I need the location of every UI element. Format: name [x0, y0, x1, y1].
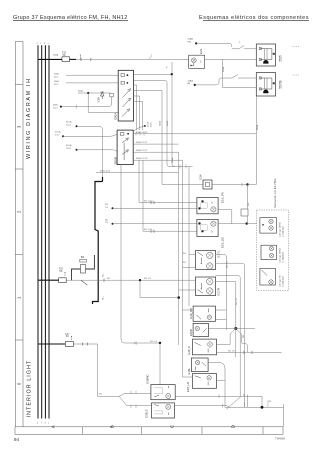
svg-text:5A: 5A: [66, 335, 69, 338]
E18MC/E18LC right wires: [175, 395, 241, 397]
svg-text:Cab type H1: Cab type H1: [279, 275, 282, 287]
fuse F22: [59, 278, 66, 283]
ground bus bar 4: [48, 45, 50, 418]
svg-text:31AA: 31AA: [188, 79, 194, 82]
wire lamp return vertical: [255, 96, 257, 185]
switch contact: [81, 280, 88, 284]
wire 31AC D2.4: [96, 172, 179, 174]
svg-text:D2.3: D2.3: [53, 108, 58, 110]
svg-text:Cab type N2/N3: Cab type N2/N3: [279, 221, 282, 237]
node junction at x172: [171, 73, 173, 75]
svg-text:b: b: [212, 202, 214, 205]
svg-text:31AA: 31AA: [53, 54, 59, 57]
wire tap2 continues to E17R: [98, 279, 196, 281]
big junction dot: [234, 327, 237, 330]
lamp unit E18_RB: [193, 306, 215, 321]
svg-text:31L C4: 31L C4: [150, 341, 157, 343]
svg-text:31AD C2.10: 31AD C2.10: [136, 131, 148, 134]
svg-text:E17L: E17L: [217, 250, 221, 257]
svg-text:31AC D2.4: 31AC D2.4: [100, 170, 111, 173]
node 31AC junction: [87, 92, 89, 94]
svg-text:E34: E34: [199, 174, 203, 179]
node 31L C4: [112, 207, 114, 209]
connector X on variants wire: [241, 209, 248, 216]
variant lamp 2: [261, 245, 277, 259]
node E18MC feed: [159, 342, 161, 344]
lamp unit E16_P5: [197, 198, 218, 214]
svg-text:INTERIOR LIGHT: INTERIOR LIGHT: [27, 360, 33, 418]
svg-text:31AD C2.12: 31AD C2.12: [136, 149, 148, 152]
svg-text:31CA: 31CA: [66, 144, 72, 147]
switch unit E18MC: [151, 385, 175, 400]
wire 31AC D2.1: [66, 74, 118, 76]
lamp unit E18B: [193, 323, 208, 336]
svg-text:31+: 31+: [103, 273, 105, 277]
svg-text:TW4868: TW4868: [275, 437, 285, 441]
svg-text:31L C2.4: 31L C2.4: [144, 201, 153, 203]
svg-text:3: 3: [44, 43, 46, 45]
lamp unit E17L: [196, 251, 216, 270]
wire to S50A pin: [87, 93, 89, 112]
svg-text:2: 2: [17, 210, 22, 213]
lamp unit 55/5: [256, 44, 275, 66]
node 31CA D1.6: [76, 125, 78, 127]
svg-text:31AC: 31AC: [54, 80, 60, 83]
svg-text:D2.2: D2.2: [54, 84, 59, 86]
svg-text:31AA: 31AA: [171, 157, 174, 163]
svg-text:5A: 5A: [63, 54, 66, 57]
node 31AA A4: [194, 84, 196, 86]
svg-text:31AD C2.11: 31AD C2.11: [136, 141, 148, 144]
misc tiny wire labels: [37, 43, 247, 396]
svg-text:55/5: 55/5: [279, 55, 283, 61]
svg-text:31L: 31L: [248, 202, 250, 206]
svg-text:Cab type N2/N3: Cab type N2/N3: [279, 247, 282, 263]
node 31CA D1.7: [62, 135, 64, 137]
svg-text:31L: 31L: [99, 394, 103, 396]
svg-text:31L C6: 31L C6: [228, 350, 235, 352]
ground bus bar 1: [37, 45, 39, 418]
svg-text:1: 1: [17, 296, 22, 299]
svg-text:K9: K9: [81, 255, 85, 259]
lamp unit 55/7B: [256, 73, 275, 97]
svg-text:b: b: [212, 231, 214, 234]
thick ground line: [93, 177, 103, 304]
wires right side routing: [216, 255, 248, 408]
svg-text:D2.1: D2.1: [54, 76, 59, 78]
svg-text:31L: 31L: [183, 253, 187, 255]
wires long verticals mid: [179, 152, 190, 377]
pin tick 1: [149, 57, 151, 60]
svg-text:E16_P5: E16_P5: [221, 192, 225, 203]
svg-text:E17R: E17R: [217, 287, 221, 295]
svg-text:C5: C5: [105, 222, 109, 224]
svg-text:E16_D5: E16_D5: [221, 237, 225, 248]
svg-text:D1.6: D1.6: [66, 124, 71, 126]
wire tap1 thick: [38, 58, 62, 60]
svg-text:Variants on E17R/L: Variants on E17R/L: [273, 178, 277, 208]
svg-text:WIRING DIAGRAM IH: WIRING DIAGRAM IH: [26, 77, 32, 159]
node 31CA D1.8: [76, 149, 78, 151]
wires S50B outputs: [133, 91, 256, 232]
svg-text:K: K: [166, 67, 168, 69]
svg-text:31AD: 31AD: [158, 120, 161, 126]
svg-text:D: D: [231, 424, 236, 428]
svg-text:31L: 31L: [105, 219, 109, 221]
svg-text:E18MC: E18MC: [145, 374, 149, 383]
svg-text:L: L: [48, 423, 50, 425]
variant lamp 1: [260, 218, 277, 233]
svg-text:A: A: [51, 424, 56, 428]
switch module S50B: [117, 130, 133, 165]
node junction E17R return: [177, 296, 180, 299]
node 31CA mid labels: [144, 125, 146, 127]
svg-text:3: 3: [17, 125, 22, 128]
ground bus bar 2: [41, 45, 43, 418]
svg-text:31AC: 31AC: [78, 90, 84, 93]
vertical drop from E23 wire: [223, 59, 257, 87]
svg-text:4: 4: [37, 423, 39, 425]
node 31AA F31: [195, 42, 197, 44]
wire tap2 thick: [38, 279, 59, 281]
svg-text:31+: 31+: [103, 296, 105, 300]
svg-text:E23: E23: [199, 48, 203, 54]
svg-text:31L C6: 31L C6: [236, 298, 238, 305]
svg-text:A4: A4: [188, 82, 191, 85]
svg-text:31L: 31L: [107, 278, 111, 280]
svg-text:D1.7: D1.7: [55, 134, 60, 136]
connector on wire: [110, 93, 114, 97]
wire A to lamp 55/5: [196, 43, 232, 47]
svg-text:55/7B: 55/7B: [279, 80, 283, 88]
svg-text:7: 7: [40, 43, 42, 45]
split to E18MC / E18LC: [119, 394, 151, 397]
switch unit E18LC: [152, 403, 175, 418]
wire 31AC D2.3: [61, 104, 112, 107]
svg-text:w. Highlight: w. Highlight: [282, 226, 285, 237]
svg-text:E18B: E18B: [189, 329, 193, 336]
fuse F47: [65, 342, 73, 347]
svg-text:31CA: 31CA: [66, 121, 72, 124]
svg-text:S50B: S50B: [114, 157, 118, 164]
svg-text:w. Highlight: w. Highlight: [282, 276, 285, 287]
ground bus bar 3: [44, 45, 46, 418]
lamp unit E18_LB: [192, 374, 216, 389]
svg-text:3: 3: [44, 423, 46, 425]
svg-text:31AC: 31AC: [53, 104, 59, 107]
diode V28: [101, 92, 105, 99]
svg-text:31: 31: [269, 401, 272, 403]
node on tap2 wire: [139, 279, 141, 281]
switch module S50A: [118, 70, 133, 121]
lamp E23: [189, 55, 205, 68]
node E34 return: [246, 183, 248, 185]
svg-text:D1.6: D1.6: [150, 122, 152, 127]
svg-text:E18LC: E18LC: [144, 409, 148, 418]
wire 31AC D2.2: [66, 82, 118, 84]
svg-text:C: C: [170, 424, 175, 428]
svg-text:1: 1: [151, 55, 153, 58]
bottom letter strip: [15, 427, 283, 435]
svg-text:E18_C: E18_C: [187, 346, 191, 355]
bottom right wires: [208, 334, 283, 427]
variant lamp 3: [260, 268, 276, 285]
svg-text:31L C2: 31L C2: [144, 278, 152, 280]
wires S50A right routing: [134, 75, 176, 167]
svg-text:31AC: 31AC: [54, 72, 60, 75]
relay K9: [72, 269, 81, 280]
svg-text:no Highlight: no Highlight: [282, 252, 285, 263]
left scale column: [15, 42, 23, 428]
svg-text:1: 1: [48, 43, 50, 45]
svg-text:31AA: 31AA: [222, 66, 225, 72]
svg-text:V28: V28: [97, 97, 101, 103]
verticals right: [231, 210, 233, 224]
svg-text:31L: 31L: [105, 204, 109, 206]
variants dashed box: [257, 210, 289, 291]
fuse F32: [62, 57, 70, 62]
wire: [70, 58, 77, 60]
wire S50B bottom to E18MC: [121, 165, 160, 343]
svg-text:D1.8: D1.8: [66, 148, 71, 150]
svg-text:31AA: 31AA: [188, 38, 194, 41]
long vertical from E23 line: [172, 62, 193, 167]
node variants feed: [246, 222, 248, 224]
svg-text:5: 5: [239, 42, 241, 44]
svg-text:7: 7: [41, 423, 43, 425]
svg-text:E18L: E18L: [187, 368, 191, 375]
wire tap3 down to lamps: [98, 344, 120, 396]
wire tap3 thick: [38, 343, 65, 345]
wire to E23: [76, 58, 189, 60]
svg-text:4: 4: [37, 43, 39, 45]
E16 feeds: [139, 202, 197, 204]
svg-text:B: B: [110, 425, 115, 428]
svg-text:F31: F31: [188, 41, 193, 43]
svg-text:31AD C2.13: 31AD C2.13: [136, 157, 148, 160]
node bottom-right junction: [261, 406, 264, 409]
node 31L C5: [112, 223, 114, 225]
svg-text:2: 2: [200, 61, 202, 64]
lamp unit E18_C: [192, 339, 216, 355]
svg-text:31L C2.5: 31L C2.5: [144, 229, 153, 231]
svg-text:94: 94: [14, 437, 19, 442]
svg-text:C4: C4: [105, 207, 109, 209]
lamp unit E16_D5: [197, 219, 218, 236]
svg-text:31L: 31L: [183, 262, 187, 264]
svg-text:31AA: 31AA: [256, 124, 259, 130]
connector tick on F32 wire: [81, 58, 82, 61]
svg-text:31L C5: 31L C5: [227, 261, 229, 268]
svg-text:E18_RB: E18_RB: [189, 308, 193, 319]
lamp unit E18L: [191, 358, 208, 372]
lamp unit E17R: [196, 277, 216, 296]
svg-text:0: 0: [17, 382, 22, 385]
svg-text:31AD: 31AD: [166, 120, 169, 126]
svg-text:S50A: S50A: [114, 113, 118, 120]
svg-text:E18_LB: E18_LB: [186, 382, 190, 392]
svg-text:31CA: 31CA: [147, 121, 150, 127]
svg-text:5A: 5A: [59, 270, 62, 273]
svg-text:31CA: 31CA: [55, 131, 61, 134]
vertical to dot: [178, 290, 180, 345]
svg-text:31: 31: [243, 394, 246, 396]
